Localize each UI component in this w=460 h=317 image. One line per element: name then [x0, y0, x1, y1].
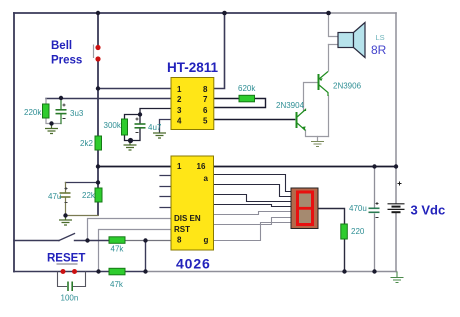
svg-text:220: 220 [351, 227, 365, 236]
node 300k/4u7 ground [128, 138, 133, 143]
wire bell press vertical from top rail [97, 13, 99, 45]
wire emitter ground stub [317, 137, 319, 142]
resistor R4 620k [238, 84, 256, 102]
battery B1 3V [388, 182, 405, 213]
svg-text:4026: 4026 [176, 256, 211, 272]
node 4u7 top [138, 112, 142, 116]
node DIS EN / switch row [85, 238, 89, 242]
wire 4026 pin16 to supply [214, 166, 397, 168]
svg-text:3 Vdc: 3 Vdc [411, 203, 446, 218]
node 22k top [96, 180, 100, 184]
node RST / rail [96, 269, 100, 273]
wire 220k leads [46, 99, 61, 124]
wire left border [13, 13, 15, 272]
wire 2N3904 collector to 2N3906 base [304, 83, 318, 112]
wire 22k/47u node row [66, 182, 99, 184]
wire HT-2811 pin5 to 2N3904 base [214, 119, 295, 121]
svg-text:6: 6 [203, 106, 208, 115]
node 47k bottom / rail [143, 269, 147, 273]
svg-text:100n: 100n [61, 294, 79, 303]
svg-text:g: g [204, 236, 209, 245]
svg-text:3u3: 3u3 [70, 109, 84, 118]
op-amp U1 HT-2811 IC body [171, 78, 214, 130]
display DS1 7-segment [291, 188, 318, 229]
wire 2N3906 emitter to speaker [328, 45, 330, 72]
svg-text:3: 3 [177, 106, 182, 115]
svg-text:DIS EN: DIS EN [174, 214, 201, 223]
wire top supply rail [14, 12, 330, 14]
node 220 / rail [342, 269, 346, 273]
capacitor C1 3u3 [56, 104, 84, 119]
wire 47k junction vertical [145, 241, 147, 272]
wire segment c [214, 195, 292, 202]
wire 100n loop [58, 272, 86, 287]
svg-text:620k: 620k [238, 84, 256, 93]
node top rail / pin8 [222, 11, 227, 16]
svg-text:2N3906: 2N3906 [333, 82, 362, 91]
wire 47k pin8 row [14, 240, 109, 242]
svg-text:RESET: RESET [47, 253, 85, 265]
ground G5 (47u/22k) [59, 216, 72, 226]
svg-text:4u7: 4u7 [148, 123, 162, 132]
wire battery to bottom rail [395, 213, 397, 272]
capacitor C5 470u electrolytic [349, 202, 380, 218]
svg-text:1: 1 [177, 162, 182, 171]
svg-text:47u: 47u [48, 192, 61, 201]
node top rail / bell [96, 11, 100, 15]
svg-text:Bell: Bell [51, 40, 72, 52]
wire 4026 pin1 row [98, 166, 171, 168]
wire bell press bottom to 2k2 and down [97, 62, 99, 216]
speaker LS [338, 23, 387, 58]
wire segment b [214, 185, 292, 197]
node top rail / speaker [326, 11, 331, 16]
node 470u top [372, 164, 376, 168]
transistor Q1 2N3904 NPN [297, 110, 306, 131]
svg-text:4: 4 [177, 116, 182, 125]
node 47k / pin8 [143, 238, 147, 242]
svg-text:300k: 300k [104, 121, 122, 130]
wire HT-2811 pin8 to top rail [214, 13, 225, 89]
wire HT-2811 pin7 through 620k to pin6 [214, 99, 266, 108]
svg-text:16: 16 [197, 162, 206, 171]
svg-text:2: 2 [177, 95, 182, 104]
svg-text:7: 7 [203, 95, 208, 104]
svg-text:220k: 220k [24, 108, 42, 117]
svg-text:47k: 47k [110, 280, 124, 289]
svg-text:470u: 470u [349, 204, 367, 213]
wire speaker top terminal [329, 13, 339, 37]
wire 4026 DIS EN [88, 219, 172, 241]
capacitor C3 47u [48, 187, 71, 203]
svg-text:5: 5 [203, 116, 208, 125]
capacitor C4 100n [61, 282, 79, 303]
node bell / pin1 [96, 86, 100, 90]
node 3u3 top [59, 96, 63, 100]
wire 2N3904 emitter down [306, 130, 329, 137]
wire right border (battery branch) [395, 13, 397, 203]
svg-text:LS: LS [376, 33, 385, 42]
resistor R2 2k2 [80, 136, 102, 150]
svg-text:8: 8 [177, 236, 182, 245]
wire 2N3906 collector down [328, 96, 330, 137]
wire display to 220 resistor [318, 209, 345, 272]
svg-text:1: 1 [177, 85, 182, 94]
wire speaker bottom terminal [329, 44, 339, 46]
wire HT-2811 pin4 to ground [160, 120, 172, 133]
svg-text:22k: 22k [82, 191, 96, 200]
svg-text:a: a [204, 174, 209, 183]
resistor R3 300k [104, 119, 128, 135]
resistor R1 220k [24, 104, 49, 118]
transistor Q2 2N3906 PNP [319, 72, 329, 97]
resistor R5 22k [82, 188, 102, 202]
node 2k2 / 4026 pin1 [96, 164, 100, 168]
wire HT-2811 pin2 row [46, 98, 171, 100]
wire segment e [214, 212, 292, 215]
wire segment d [214, 205, 292, 207]
switch S2 reset push button [57, 264, 78, 274]
wire 4026 RST [99, 230, 172, 272]
svg-text:Press: Press [51, 55, 82, 67]
resistor R7 47k bottom [109, 268, 125, 289]
svg-text:RST: RST [174, 225, 190, 234]
resistor R6 47k top [109, 237, 125, 254]
node 470u / rail [372, 269, 376, 273]
node battery top [394, 164, 398, 168]
wire segment f [214, 218, 292, 225]
wire segment a [214, 175, 292, 192]
counter U2 4026 IC body [171, 156, 214, 250]
wire HT-2811 pin1 row [98, 88, 171, 90]
node 47u ground [63, 213, 67, 217]
ground G6 (battery rail) [391, 272, 404, 283]
ground G1 (220k/3u3) [45, 124, 58, 134]
svg-text:HT-2811: HT-2811 [167, 60, 219, 75]
switch S1 bell press button [94, 45, 101, 62]
switch blade doorbell [59, 234, 75, 241]
wire 3u3 leads [60, 99, 62, 124]
capacitor C2 4u7 [135, 118, 162, 133]
wire segment g [214, 223, 292, 241]
svg-text:8: 8 [203, 85, 208, 94]
wire 4026 left stubs pins [160, 176, 171, 208]
wire 470u branch [374, 167, 376, 272]
ground G3 (HT pin4) [153, 133, 166, 138]
svg-text:47k: 47k [111, 245, 125, 254]
wire 47u leads [66, 183, 99, 216]
resistor R8 220 [341, 224, 365, 239]
ground G4 (transistors) [311, 142, 324, 147]
node 220k/3u3 ground [49, 121, 53, 125]
svg-text:2k2: 2k2 [80, 139, 93, 148]
svg-text:2N3904: 2N3904 [276, 101, 305, 110]
svg-text:8R: 8R [371, 43, 387, 57]
ground G2 (300k/4u7) [124, 141, 137, 151]
wire HT-2811 pin3 net to 300k/4u7 [125, 109, 172, 141]
wire bottom ground rail [14, 271, 145, 273]
